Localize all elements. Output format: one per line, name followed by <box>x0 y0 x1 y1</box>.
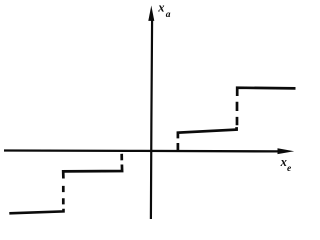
x-axis (horizontal line) <box>4 149 280 152</box>
step -2 horizontal <box>9 209 63 214</box>
y-axis arrowhead <box>148 6 154 21</box>
dashed jump at x=63 (step -1 down to step -2) <box>62 186 65 205</box>
x-axis arrowhead <box>278 148 295 154</box>
step +2 horizontal <box>237 88 295 96</box>
step +1 horizontal with dashed-corner stubs <box>178 127 237 151</box>
dashed jump at x=122 (axis down to step -1) <box>120 154 123 161</box>
svg-text:a: a <box>166 10 171 20</box>
dashed jump at x=237 (between step +1 and step +2) <box>236 102 239 126</box>
y-axis (vertical line) <box>151 20 152 220</box>
svg-text:x: x <box>280 155 287 169</box>
step -1 horizontal <box>63 165 122 179</box>
svg-text:x: x <box>157 0 164 14</box>
